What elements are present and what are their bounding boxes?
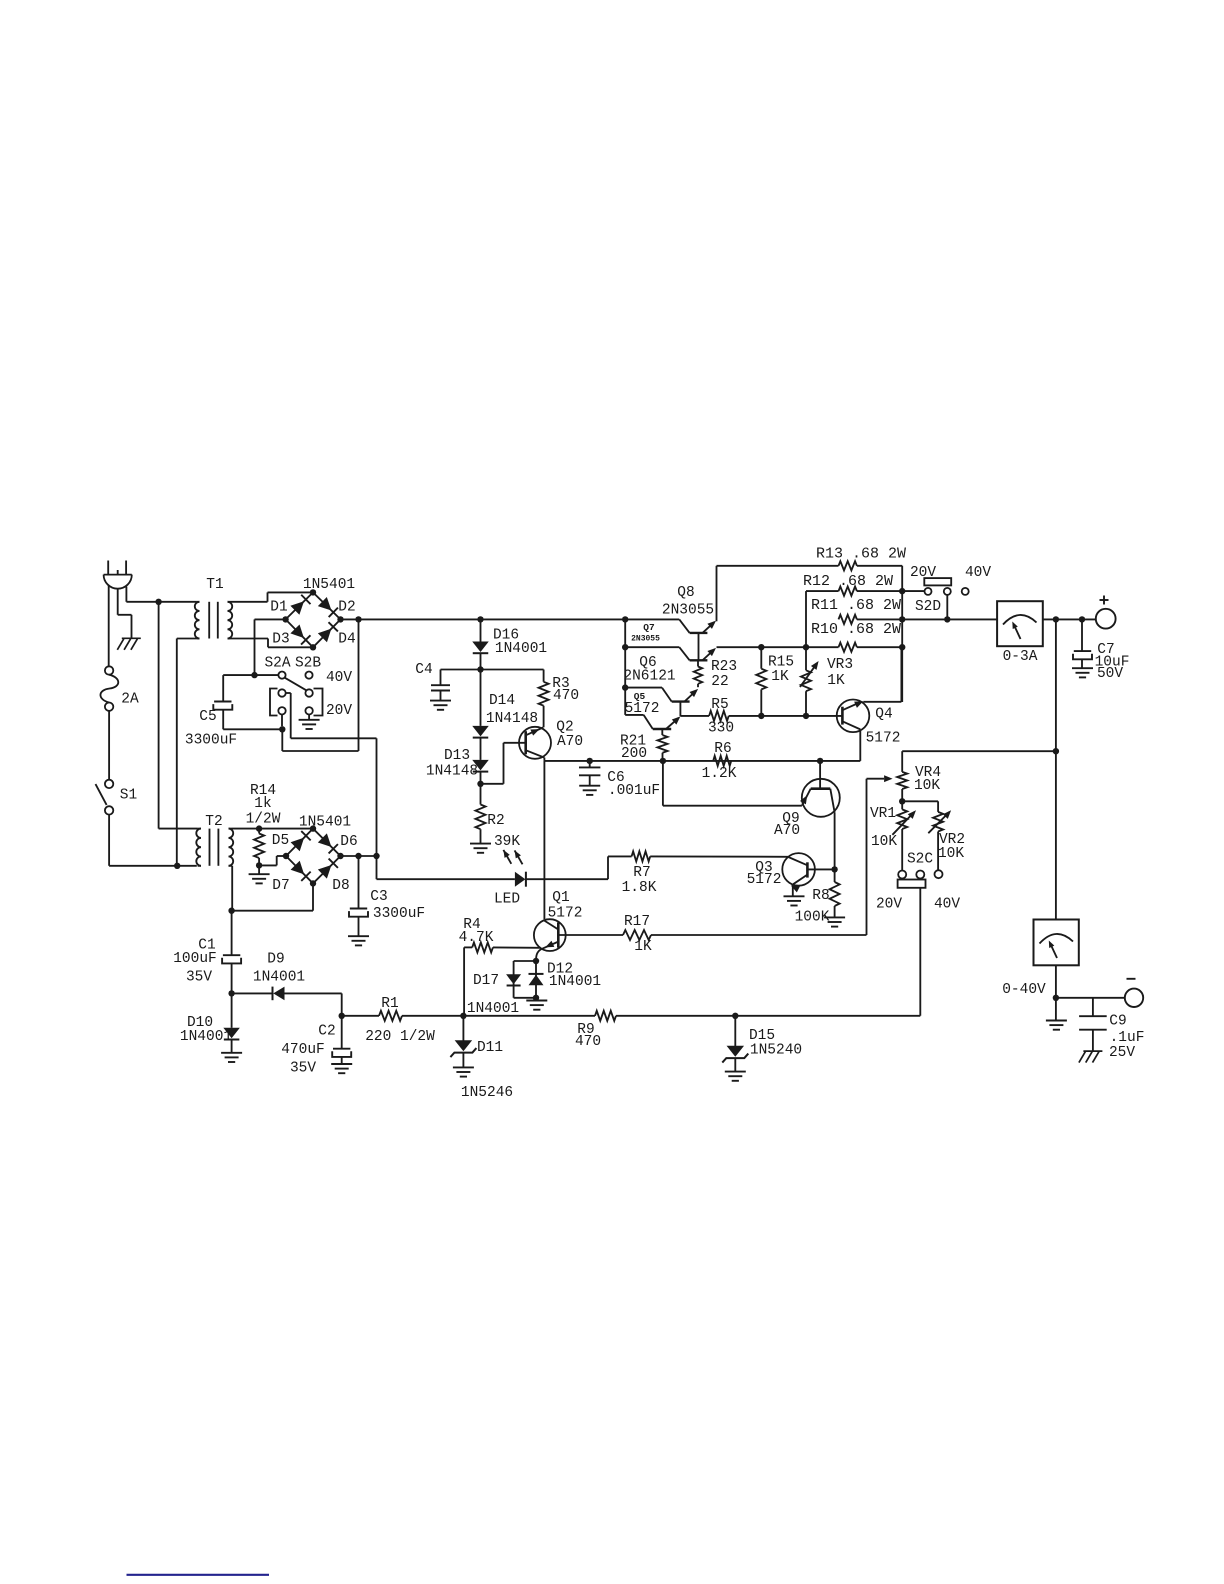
svg-text:4.7K: 4.7K <box>459 930 494 946</box>
ground below R14 <box>258 865 260 873</box>
svg-text:LED: LED <box>494 892 520 908</box>
svg-text:10K: 10K <box>871 834 897 850</box>
svg-text:50V: 50V <box>1097 666 1123 682</box>
svg-text:10K: 10K <box>938 846 964 862</box>
svg-text:.001uF: .001uF <box>608 783 660 799</box>
wire sense resistor common <box>901 566 903 702</box>
bridge rectifier frame D5-D8 <box>286 829 341 884</box>
svg-text:C9: C9 <box>1109 1014 1126 1030</box>
wire bridge2 bottom to C1 node <box>312 883 314 910</box>
junction dot S2D to rail <box>944 616 950 622</box>
fuse F1 2A <box>105 666 113 674</box>
transistor Q3 5172 <box>782 853 815 886</box>
wire S1 to T2 primary bottom <box>108 815 110 866</box>
svg-text:S2B: S2B <box>295 656 321 672</box>
wire tap node to rail (B) <box>281 729 283 751</box>
svg-text:3300uF: 3300uF <box>373 906 425 922</box>
wire Q1 collector vertical <box>543 761 545 919</box>
resistor R5 330 <box>680 715 709 717</box>
diode D17 1N4001 <box>506 974 521 984</box>
junction dot R14 top <box>256 825 262 831</box>
wire R17 to VR4 wiper <box>866 779 868 935</box>
wire bridge2 plus output <box>341 855 377 857</box>
svg-text:35V: 35V <box>290 1061 316 1077</box>
switch S1 <box>105 780 113 788</box>
terminal minus <box>1125 989 1143 1007</box>
junction dot AC hot <box>155 599 161 605</box>
svg-text:D6: D6 <box>340 834 357 850</box>
junction dot R15 bottom <box>758 713 764 719</box>
junction dot R4/D11/R1 node <box>460 1013 466 1019</box>
svg-text:D13: D13 <box>444 748 470 764</box>
svg-text:.1uF: .1uF <box>1110 1030 1145 1046</box>
junction dot C1 top <box>228 908 234 914</box>
resistor R10 .68 2W <box>717 646 839 648</box>
svg-text:10K: 10K <box>914 778 940 794</box>
wire Q2 base to D13 node <box>481 783 504 785</box>
capacitor C4 <box>441 669 481 671</box>
wire plug ground lead <box>117 589 119 615</box>
svg-text:470: 470 <box>553 688 579 704</box>
wire minus node to terminal <box>1056 997 1124 999</box>
junction dot D16 top on rail <box>477 616 483 622</box>
junction dot D13/R2 node <box>477 781 483 787</box>
svg-text:C3: C3 <box>370 889 387 905</box>
potentiometer VR1 10K <box>901 801 903 809</box>
svg-text:Q8: Q8 <box>677 585 694 601</box>
wire voltmeter to minus node <box>1055 965 1057 998</box>
svg-text:1K: 1K <box>771 669 789 685</box>
footer underline <box>127 1574 270 1576</box>
LED <box>376 856 378 879</box>
diode D4 <box>318 629 332 643</box>
resistor R2 39K <box>480 784 482 805</box>
svg-text:S2A: S2A <box>264 656 290 672</box>
svg-text:25V: 25V <box>1109 1045 1135 1061</box>
wire R14 bottom to bridge2 minus <box>259 864 277 866</box>
wire R1/R9 row <box>463 1015 595 1017</box>
junction dot rail/S2 feed <box>355 616 361 622</box>
switch S2A <box>278 672 285 679</box>
svg-text:R17: R17 <box>624 914 650 930</box>
wire right rail to voltmeter <box>1055 619 1057 919</box>
svg-text:C4: C4 <box>415 662 432 678</box>
junction dot C7 top <box>1079 616 1085 622</box>
resistor R9 470 <box>595 1011 616 1021</box>
svg-text:2N3055: 2N3055 <box>631 635 660 644</box>
diode D14 1N4148 <box>480 670 482 726</box>
svg-text:35V: 35V <box>186 970 212 986</box>
ammeter M1 0-3A <box>997 601 1043 646</box>
svg-text:R7: R7 <box>633 865 650 881</box>
diode D11 1N5246 zener <box>462 1016 464 1041</box>
resistor R21 200 <box>658 735 668 753</box>
transformer T1 secondary winding <box>228 602 233 639</box>
ground at Q3 emitter <box>784 895 805 897</box>
wire rail to ammeter <box>857 618 997 620</box>
ground below minus node <box>1055 998 1057 1020</box>
transformer T2 primary winding <box>196 829 201 866</box>
diode D9 1N4001 <box>232 992 273 994</box>
svg-text:Q1: Q1 <box>552 890 569 906</box>
svg-text:D4: D4 <box>338 632 355 648</box>
diode D7 <box>291 861 305 875</box>
potentiometer VR2 10K <box>902 800 938 802</box>
junction dot D16/C4/R3 node <box>477 666 483 672</box>
svg-text:2N6121: 2N6121 <box>623 669 675 685</box>
wire R21-node down to Q9 emitter <box>662 761 664 806</box>
transistor Q9 A70 <box>802 779 840 817</box>
svg-text:22: 22 <box>711 674 728 690</box>
capacitor C6 .001uF <box>589 761 591 767</box>
wire bridge1 minus to S2A node <box>255 618 286 620</box>
junction dots bridge2 <box>310 825 316 831</box>
svg-text:D14: D14 <box>489 693 515 709</box>
capacitor C3 3300uF <box>358 856 360 908</box>
ground at right tap <box>308 715 310 720</box>
wire T2 secondary top <box>232 828 314 830</box>
svg-text:40V: 40V <box>965 565 991 581</box>
svg-text:330: 330 <box>708 721 734 737</box>
svg-text:C2: C2 <box>318 1024 335 1040</box>
junction dot minus node <box>1053 995 1059 1001</box>
resistor R23 22 <box>697 660 699 666</box>
svg-text:470uF: 470uF <box>281 1042 325 1058</box>
svg-text:Q4: Q4 <box>875 707 892 723</box>
svg-text:1N4001: 1N4001 <box>467 1001 519 1017</box>
svg-text:1N4148: 1N4148 <box>426 764 478 780</box>
svg-text:200: 200 <box>621 746 647 762</box>
diode D5 <box>291 838 305 852</box>
svg-text:S1: S1 <box>120 788 137 804</box>
svg-text:0-3A: 0-3A <box>1003 649 1038 665</box>
wire Q-block collector rail <box>624 619 626 715</box>
junction dot R11 common <box>899 616 905 622</box>
svg-text:R6: R6 <box>714 741 731 757</box>
junction dots bridge1 <box>310 589 316 595</box>
wire D9 to R1 node <box>341 993 343 1015</box>
resistor R8 100K <box>834 869 836 882</box>
svg-text:D5: D5 <box>272 833 289 849</box>
svg-text:1k: 1k <box>254 796 271 812</box>
wire ammeter to plus terminal <box>1043 618 1096 620</box>
svg-text:1N4148: 1N4148 <box>486 711 538 727</box>
junction dot negative-supply output <box>373 853 379 859</box>
svg-text:1N4001: 1N4001 <box>549 974 601 990</box>
svg-text:5172: 5172 <box>548 906 583 922</box>
svg-text:R11 .68 2W: R11 .68 2W <box>811 597 901 614</box>
junction dot rail/Q-block <box>622 616 628 622</box>
transistor Q6 2N6121 <box>672 700 690 702</box>
svg-text:Q7: Q7 <box>643 622 655 633</box>
svg-text:5172: 5172 <box>747 872 782 888</box>
diode pair bracket <box>514 960 536 962</box>
junction dot C6 top <box>587 758 593 764</box>
svg-text:D1: D1 <box>270 600 287 616</box>
transistor Q7 2N3055 <box>690 659 708 661</box>
junction dot D15 top <box>732 1013 738 1019</box>
transistor Q8 2N3055 <box>690 632 708 634</box>
transistor Q2 A70 <box>519 727 551 759</box>
wire Q4 emitter to sense common <box>863 701 901 703</box>
svg-text:220 1/2W: 220 1/2W <box>365 1029 435 1045</box>
svg-text:40V: 40V <box>326 670 352 686</box>
svg-text:D3: D3 <box>272 632 289 648</box>
wire R12 left leg <box>805 591 807 647</box>
svg-text:A70: A70 <box>557 734 583 750</box>
junction dot C3 top <box>355 853 361 859</box>
junction dot S1/T1-return <box>174 863 180 869</box>
svg-text:R10 .68 2W: R10 .68 2W <box>811 621 901 638</box>
svg-text:1K: 1K <box>634 939 652 955</box>
svg-text:R2: R2 <box>487 813 504 829</box>
svg-text:5172: 5172 <box>866 731 901 747</box>
wire T1 secondary bottom to bridge <box>231 638 269 640</box>
VR4 wiper arrow <box>867 778 885 780</box>
svg-text:T1: T1 <box>206 577 223 593</box>
svg-text:3300uF: 3300uF <box>185 733 237 749</box>
diode D16 1N4001 <box>480 619 482 641</box>
svg-text:A70: A70 <box>774 823 800 839</box>
svg-text:S2D: S2D <box>915 599 941 615</box>
transformer T1 primary winding <box>195 602 200 639</box>
svg-text:20V: 20V <box>876 897 902 913</box>
svg-text:20V: 20V <box>326 703 352 719</box>
resistor R3 470 <box>481 669 544 671</box>
svg-text:R13 .68 2W: R13 .68 2W <box>816 546 906 563</box>
connector block left (20V tap) <box>270 689 278 716</box>
transistor Q1 5172 <box>534 919 566 951</box>
junction dot D12 top <box>533 958 539 964</box>
potentiometer VR3 1K <box>805 647 807 670</box>
svg-text:D8: D8 <box>332 878 349 894</box>
junction dot R10 common <box>899 644 905 650</box>
connector block right (20V tap) <box>314 689 323 716</box>
resistor R12 .68 2W <box>806 590 839 592</box>
svg-text:100K: 100K <box>795 910 830 926</box>
junction dot D12 bottom <box>533 995 539 1001</box>
capacitor C1 100uF 35V <box>231 911 233 955</box>
svg-text:100uF: 100uF <box>173 951 217 967</box>
resistor R7 1.8K <box>607 856 609 879</box>
capacitor C2 470uF 35V <box>341 1016 343 1049</box>
junction dot R14 bottom <box>256 862 262 868</box>
svg-text:40V: 40V <box>934 897 960 913</box>
svg-text:1N5240: 1N5240 <box>750 1043 802 1059</box>
svg-text:20V: 20V <box>910 565 936 581</box>
wire plug hot lead <box>125 587 127 602</box>
junction dot C5/tap node <box>279 726 285 732</box>
resistor R11 .68 2W <box>839 615 857 624</box>
svg-text:D9: D9 <box>267 952 284 968</box>
resistor R15 1K <box>760 647 762 669</box>
svg-text:1/2W: 1/2W <box>246 812 281 828</box>
wire T1 primary bottom return <box>177 638 197 640</box>
junction dot VR3 top <box>803 644 809 650</box>
wire main positive rail <box>341 618 680 620</box>
svg-text:VR1: VR1 <box>870 806 896 822</box>
svg-text:470: 470 <box>575 1034 601 1050</box>
wire emitter node horizontal <box>544 760 860 762</box>
capacitor C5 3300uF <box>222 675 224 701</box>
svg-text:D17: D17 <box>473 973 499 989</box>
svg-text:D2: D2 <box>338 600 355 616</box>
svg-text:T2: T2 <box>205 814 222 830</box>
transformer T2 secondary winding <box>229 829 234 866</box>
svg-text:R23: R23 <box>711 659 737 675</box>
bridge rectifier frame D1-D4 <box>286 592 341 647</box>
junction dot VR4 feed <box>1053 748 1059 754</box>
wire C5 bottom to tap node <box>223 728 282 730</box>
svg-text:R12 .68 2W: R12 .68 2W <box>803 573 893 590</box>
wire AC hot down to T2 primary top <box>158 602 160 829</box>
potentiometer VR4 10K <box>901 751 903 772</box>
svg-text:1K: 1K <box>827 673 845 689</box>
diode D10 1N4001 <box>231 993 233 1027</box>
svg-text:2N3055: 2N3055 <box>662 603 714 619</box>
voltmeter M2 0-40V <box>1034 920 1079 966</box>
svg-text:VR3: VR3 <box>827 657 853 673</box>
resistor R14 1k 1/2W <box>258 829 260 834</box>
svg-text:39K: 39K <box>494 834 520 850</box>
wire Q8 emitter riser <box>716 566 718 622</box>
capacitor C7 10uF 50V <box>1081 619 1083 650</box>
svg-text:1N4001: 1N4001 <box>253 970 305 986</box>
wire Q3 base to R8 node <box>807 868 834 870</box>
svg-text:R8: R8 <box>812 888 829 904</box>
junction dot D9/D10 node <box>228 990 234 996</box>
diode D2 <box>318 597 332 611</box>
junction dot VR3 bottom <box>803 713 809 719</box>
diode D6 <box>318 833 332 847</box>
wire plug left lead to fuse <box>108 586 110 667</box>
svg-text:R1: R1 <box>381 996 398 1012</box>
svg-text:D7: D7 <box>272 878 289 894</box>
svg-text:D11: D11 <box>477 1040 503 1056</box>
resistor R13 .68 2W <box>717 565 839 567</box>
svg-text:0-40V: 0-40V <box>1002 982 1046 998</box>
diode D1 <box>290 601 304 615</box>
diode D3 <box>290 624 304 638</box>
diode D8 <box>318 865 332 879</box>
resistor R17 1K <box>558 934 623 936</box>
junction dot voltmeter rail top <box>1053 616 1059 622</box>
switch S2B contact <box>305 672 312 679</box>
svg-text:2A: 2A <box>121 692 139 708</box>
resistor R1 220 1/2W <box>342 1015 379 1017</box>
wire T2 secondary bottom to C1 <box>231 866 233 911</box>
svg-text:1N5246: 1N5246 <box>461 1085 513 1101</box>
wire left tap top to output node <box>286 692 291 694</box>
AC plug P1 <box>107 561 109 575</box>
transformer T1 core <box>208 602 210 639</box>
diode D12 1N4001 <box>535 961 537 998</box>
junction dot R21 bottom <box>660 758 666 764</box>
diode D13 1N4148 <box>480 738 482 760</box>
svg-text:R5: R5 <box>711 697 728 713</box>
transistor Q4 5172 <box>837 700 870 733</box>
terminal plus <box>1096 609 1116 629</box>
junction dot R12/R13 common <box>899 588 905 594</box>
junction dot Q3 base/R8 <box>831 866 837 872</box>
svg-text:1N4001: 1N4001 <box>495 641 547 657</box>
junction dot VR4/VR1 <box>899 798 905 804</box>
resistor R4 4.7K <box>463 947 465 1015</box>
svg-text:1.2K: 1.2K <box>702 766 737 782</box>
junction dot Q6 collector <box>622 684 628 690</box>
junction dot S2A node <box>251 672 257 678</box>
svg-text:5172: 5172 <box>625 701 660 717</box>
svg-text:C5: C5 <box>199 709 216 725</box>
wire left tap bottom to node <box>281 715 283 727</box>
chassis ground at plug <box>122 637 141 639</box>
transistor Q5 5172 <box>653 728 671 730</box>
transformer T2 core <box>209 829 211 866</box>
wire C5 top to S2A <box>223 674 278 676</box>
capacitor C9 .1uF 25V <box>1092 998 1094 1016</box>
ground below D12 <box>535 998 537 1000</box>
svg-text:S2C: S2C <box>907 852 933 868</box>
wire T1 secondary top to bridge <box>231 601 268 603</box>
wire output to VR4 <box>902 750 1056 752</box>
switch S2D <box>924 578 951 585</box>
svg-text:1.8K: 1.8K <box>622 880 657 896</box>
junction dot C2/R1 node <box>339 1013 345 1019</box>
svg-text:1N5401: 1N5401 <box>299 815 351 831</box>
wire fuse to S1 <box>108 711 110 780</box>
resistor R6 1.2K <box>713 756 731 766</box>
diode D15 1N5240 zener <box>734 1016 736 1047</box>
switch S2C <box>898 871 906 879</box>
junction dot Q9 base top <box>817 758 823 764</box>
svg-text:1N4001: 1N4001 <box>180 1029 232 1045</box>
junction dot Q7 collector <box>622 644 628 650</box>
junction dot R15 top <box>758 644 764 650</box>
